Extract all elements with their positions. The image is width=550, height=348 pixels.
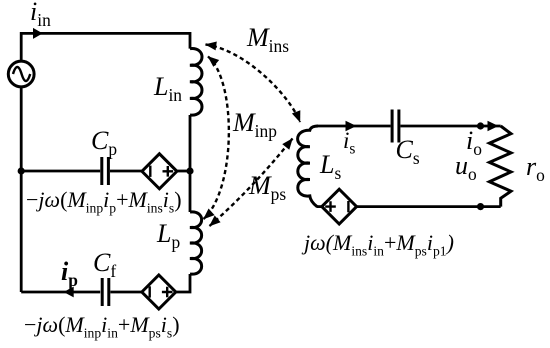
capacitor Cf [102,278,109,306]
mutual coupling arrow Mins [206,45,301,123]
resistor ro zigzag [489,126,511,207]
wire: Cp to diamond source 1 [110,170,142,173]
arrow io current direction [488,121,499,131]
label Cf [93,250,116,276]
label ip [61,259,78,285]
wire: Cf to diamond source 2 [110,291,141,294]
label Cp [91,128,117,154]
node B dot (right middle junction) [186,167,193,174]
node C dot (output top terminal) [477,122,484,129]
label io [466,128,482,154]
dependent source 2 minus bar [148,286,150,297]
arrow iin current direction [33,28,43,39]
arrow is current direction [346,121,357,131]
label Ls [320,152,341,178]
label Mins [247,25,289,51]
dependent source 3 diamond [322,189,357,224]
ac source sine symbol [13,67,30,81]
wire: bottom branch left segment [21,291,100,294]
label Minp [233,110,277,136]
label equation source 2 [24,314,180,336]
label Cs [396,137,420,163]
inductor Ls [298,126,318,207]
wire: middle branch left segment [21,170,100,173]
mutual coupling arrow Minp [204,57,229,220]
wire: secondary bottom wire right segment [357,205,501,208]
node D dot (output bottom terminal) [477,203,484,210]
mutual coupling arrow Mps [210,139,293,227]
label is [343,129,355,152]
wire: secondary top wire Ls to Cs [317,125,391,128]
dependent source 3 plus sign [325,201,336,212]
dependent source 1 minus bar [149,166,151,177]
label Mps [249,173,286,199]
label ro [526,154,545,180]
node A dot (left middle junction) [18,167,25,174]
dependent source 3 minus bar [347,201,349,212]
dependent source 2 plus sign [162,287,173,298]
dependent source 1 diamond [142,154,177,189]
label iin [30,0,51,25]
wire: Cs to output node [401,125,501,128]
dependent source 1 plus sign [163,166,174,177]
wire: diamond source 1 to node B [177,170,190,173]
wire: right vertical Lin to middle node [189,115,192,212]
label equation source 1 [26,189,182,211]
wire: left vertical below source [20,87,23,292]
wire: left loop top (iin branch) [21,33,190,61]
label uo [455,153,477,179]
inductor Lin [190,48,202,115]
wire: Lp bottom to diamond source 2 [176,274,190,292]
ac source Vin circle [8,61,34,87]
capacitor Cp [102,157,109,185]
arrow ip current direction [64,287,74,298]
label Lp [157,221,180,247]
capacitor Cs [392,110,399,143]
label equation source 3 [304,232,454,254]
label Lin [154,74,182,100]
wire: secondary bottom wire left segment [317,205,325,208]
inductor Lp [190,212,202,274]
dependent source 2 diamond [142,275,176,309]
